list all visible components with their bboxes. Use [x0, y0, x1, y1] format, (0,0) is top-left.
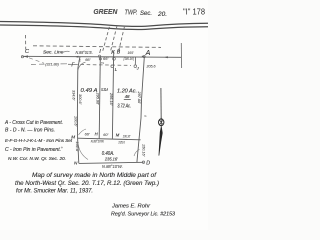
- pin circle D: [142, 161, 144, 163]
- dashed lane diagonal 3: [118, 27, 124, 53]
- svg-text:66': 66': [85, 132, 90, 136]
- bearing arc below M: [78, 145, 88, 160]
- svg-text:GREEN: GREEN: [93, 7, 118, 16]
- svg-text:2: 2: [100, 61, 104, 64]
- road double line (upper): [0, 22, 208, 27]
- bearing arc at F: [78, 62, 86, 70]
- stray cross mark: [61, 146, 63, 148]
- svg-text:0.31A: 0.31A: [101, 87, 108, 92]
- svg-text:0.40A.: 0.40A.: [102, 151, 115, 157]
- svg-text:60': 60': [103, 133, 108, 137]
- north arrow ornament cross: [159, 118, 163, 127]
- svg-text:334.6': 334.6': [72, 90, 76, 101]
- dashed vertical at C: [25, 35, 27, 50]
- bearing arc above M: [79, 129, 87, 135]
- svg-text:Sec. Line: Sec. Line: [43, 50, 64, 56]
- svg-text:66': 66': [85, 57, 90, 62]
- svg-text:295.16': 295.16': [109, 92, 113, 106]
- svg-text:"I" 178: "I" 178: [183, 8, 206, 17]
- leader squiggle after Sec. Line: [64, 51, 70, 52]
- svg-text:Sec.: Sec.: [140, 10, 152, 17]
- north arrow shaft: [160, 88, 162, 119]
- svg-text:1.20 Ac.: 1.20 Ac.: [117, 88, 137, 94]
- pin circle L on V4: [111, 65, 114, 68]
- svg-text:A - Cross Cut in Pavement.: A - Cross Cut in Pavement.: [4, 120, 63, 126]
- dashed right-of-way line south: [68, 64, 131, 65]
- svg-text:20.: 20.: [157, 11, 167, 18]
- svg-text:for Mr. Smucker Mar. 11, 1937.: for Mr. Smucker Mar. 11, 1937.: [16, 189, 93, 195]
- svg-text:235.16': 235.16': [104, 157, 119, 163]
- pin circle K: [113, 57, 116, 60]
- underline under 48: [124, 99, 131, 101]
- svg-text:48: 48: [125, 94, 130, 100]
- svg-text:James E. Rohr: James E. Rohr: [111, 204, 151, 210]
- pin circle J: [134, 65, 137, 68]
- section line: [23, 56, 182, 57]
- svg-text:E-F-G-H-I-J-K-L-M - Iron Pins: E-F-G-H-I-J-K-L-M - Iron Pins Set: [5, 138, 73, 143]
- svg-text:235.6: 235.6: [118, 140, 126, 144]
- east boundary A to D: [137, 57, 144, 162]
- svg-text:0.49 A: 0.49 A: [81, 88, 98, 94]
- lot line at I (V2): [99, 56, 100, 138]
- title GREEN TWP. Sec. 20.: [93, 7, 167, 18]
- svg-text:D: D: [146, 160, 150, 166]
- svg-text:N.88°10'W.: N.88°10'W.: [102, 164, 123, 169]
- arrow near A: [142, 56, 146, 58]
- svg-text:(321.88): (321.88): [45, 61, 59, 66]
- svg-text:M: M: [116, 132, 120, 137]
- arrow near F: [75, 56, 79, 58]
- svg-text:297.66': 297.66': [137, 91, 141, 105]
- pin circle on V2: [99, 58, 101, 60]
- quarter-corner bar: [180, 43, 182, 68]
- pin circle A: [143, 56, 145, 58]
- road double line (lower): [0, 25, 208, 30]
- dashed leader from C to dim: [29, 58, 44, 63]
- svg-text:N.88°10'W.: N.88°10'W.: [91, 139, 105, 143]
- north arrow ornament: [159, 119, 164, 126]
- short drop with pin circle J: [134, 57, 136, 65]
- svg-text:100.6': 100.6': [74, 116, 78, 127]
- south boundary N to D: [79, 162, 144, 163]
- pin circle C: [21, 56, 23, 58]
- svg-text:B: B: [117, 50, 121, 56]
- west boundary F to N: [77, 57, 80, 164]
- bearing arc near D: [134, 150, 140, 157]
- mid lot line M to east: [78, 138, 141, 140]
- svg-text:Map of survey made in North Mi: Map of survey made in North Middle part …: [32, 173, 157, 179]
- svg-text:N.88°01'E.: N.88°01'E.: [76, 50, 94, 55]
- dashed right-of-way line north: [33, 46, 161, 48]
- svg-text:3.72 Ac.: 3.72 Ac.: [117, 103, 131, 109]
- arrow right segment: [164, 56, 168, 58]
- svg-text:295.66': 295.66': [95, 92, 99, 106]
- svg-text:B - D - N. — Iron Pins.: B - D - N. — Iron Pins.: [5, 128, 55, 134]
- svg-text:150.16': 150.16': [142, 144, 146, 157]
- svg-text:165': 165': [128, 50, 134, 55]
- north arrow blade: [159, 127, 162, 156]
- svg-text:N.W. Cor. N.W. Qr. Sec. 20.: N.W. Cor. N.W. Qr. Sec. 20.: [8, 156, 66, 161]
- svg-text:300.6': 300.6': [78, 94, 82, 105]
- arrow at C end: [24, 55, 28, 57]
- pin circle I: [98, 55, 100, 57]
- svg-text:J: J: [136, 67, 139, 71]
- svg-text:the North-West Qr. Sec. 20. T.: the North-West Qr. Sec. 20. T.17, R.12. …: [15, 181, 159, 187]
- dashed lane diagonal 2: [110, 26, 117, 52]
- svg-text:A: A: [145, 50, 151, 57]
- svg-text:(140.16'): (140.16'): [124, 57, 135, 61]
- svg-text:C - Iron Pin in Pavement.: C - Iron Pin in Pavement.: [5, 147, 61, 153]
- lot line at K (V4): [112, 52, 113, 139]
- svg-text:66': 66': [103, 56, 108, 61]
- svg-text:100.16': 100.16': [123, 135, 131, 139]
- svg-text:205.6: 205.6: [146, 65, 156, 69]
- dim (321.88) with flanking dashes: [31, 63, 45, 65]
- dashed lane diagonal 1: [102, 27, 109, 53]
- svg-text:Reg'd. Surveyor Lic. #2153: Reg'd. Surveyor Lic. #2153: [111, 212, 175, 218]
- svg-text:TWP.: TWP.: [125, 7, 138, 16]
